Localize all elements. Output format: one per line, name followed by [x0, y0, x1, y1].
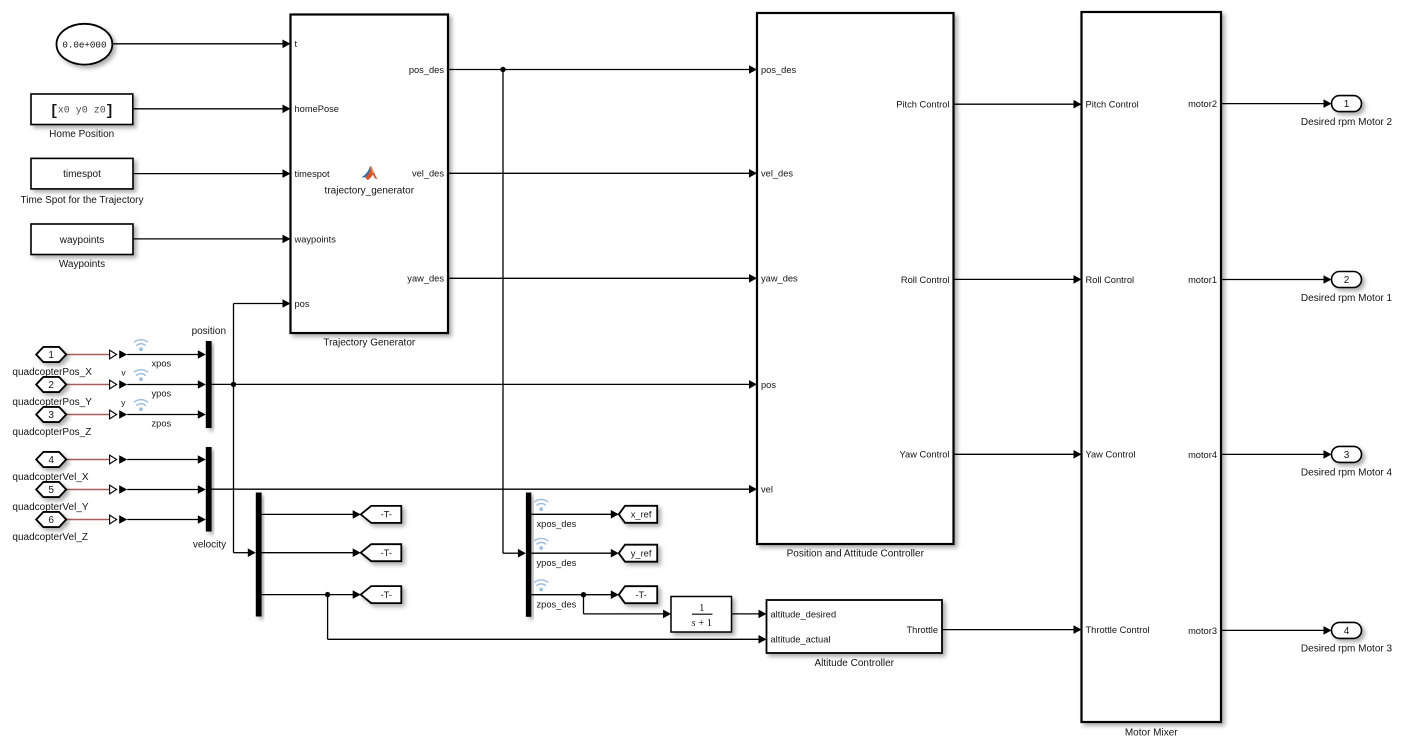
svg-text:1: 1: [1344, 99, 1350, 110]
svg-text:homePose: homePose: [295, 104, 339, 114]
svg-text:vel: vel: [761, 485, 773, 495]
svg-text:yaw_des: yaw_des: [761, 274, 798, 284]
svg-text:waypoints: waypoints: [59, 235, 104, 246]
svg-text:Altitude Controller: Altitude Controller: [815, 658, 895, 669]
svg-text:trajectory_generator: trajectory_generator: [325, 185, 415, 196]
svg-text:ypos: ypos: [152, 389, 172, 399]
svg-text:Desired rpm Motor 4: Desired rpm Motor 4: [1301, 468, 1393, 479]
svg-text:Desired rpm Motor 2: Desired rpm Motor 2: [1301, 117, 1393, 128]
svg-text:5: 5: [48, 485, 54, 496]
svg-text:Time Spot for the Trajectory: Time Spot for the Trajectory: [20, 195, 143, 206]
svg-text:1: 1: [48, 350, 54, 361]
svg-text:Throttle: Throttle: [906, 625, 938, 635]
svg-text:y: y: [121, 397, 126, 407]
svg-text:Pitch Control: Pitch Control: [896, 100, 949, 110]
svg-text:motor3: motor3: [1188, 626, 1217, 636]
svg-text:-T-: -T-: [635, 590, 646, 600]
svg-text:Position and Attitude Controll: Position and Attitude Controller: [787, 548, 925, 559]
svg-text:pos: pos: [295, 299, 310, 309]
svg-text:timespot: timespot: [295, 169, 331, 179]
svg-text:zpos_des: zpos_des: [537, 599, 577, 609]
svg-text:6: 6: [48, 515, 54, 526]
svg-text:timespot: timespot: [63, 169, 101, 180]
svg-text:Yaw Control: Yaw Control: [900, 450, 950, 460]
svg-text:Desired rpm Motor 1: Desired rpm Motor 1: [1301, 293, 1393, 304]
svg-text:x0 y0 z0: x0 y0 z0: [58, 105, 106, 116]
svg-text:-T-: -T-: [381, 510, 392, 520]
svg-text:vel_des: vel_des: [761, 169, 793, 179]
svg-text:Roll Control: Roll Control: [901, 275, 950, 285]
svg-text:0.0e+000: 0.0e+000: [62, 39, 106, 50]
svg-text:velocity: velocity: [193, 540, 226, 551]
svg-text:Trajectory Generator: Trajectory Generator: [323, 338, 416, 349]
svg-text:2: 2: [1344, 275, 1350, 286]
svg-text:Home Position: Home Position: [49, 129, 114, 140]
svg-text:Throttle Control: Throttle Control: [1086, 625, 1150, 635]
svg-text:motor2: motor2: [1188, 99, 1217, 109]
svg-text:xpos: xpos: [152, 359, 172, 369]
svg-text:t: t: [295, 39, 298, 49]
svg-text:-T-: -T-: [381, 590, 392, 600]
svg-text:s + 1: s + 1: [692, 618, 713, 629]
svg-text:waypoints: waypoints: [294, 234, 337, 244]
svg-text:pos_des: pos_des: [761, 65, 797, 75]
svg-text:xpos_des: xpos_des: [537, 519, 577, 529]
svg-text:-T-: -T-: [381, 548, 392, 558]
svg-text:motor4: motor4: [1188, 450, 1217, 460]
svg-text:quadcopterPos_Z: quadcopterPos_Z: [12, 427, 91, 438]
svg-text:altitude_actual: altitude_actual: [771, 635, 831, 645]
svg-text:pos: pos: [761, 380, 776, 390]
svg-text:Yaw Control: Yaw Control: [1086, 450, 1136, 460]
svg-text:4: 4: [1344, 626, 1350, 637]
svg-text:Desired rpm Motor 3: Desired rpm Motor 3: [1301, 644, 1393, 655]
svg-text:vel_des: vel_des: [412, 169, 444, 179]
svg-text:y_ref: y_ref: [631, 549, 652, 559]
svg-text:pos_des: pos_des: [409, 65, 445, 75]
svg-text:x_ref: x_ref: [631, 510, 652, 520]
svg-text:Motor Mixer: Motor Mixer: [1125, 727, 1178, 738]
svg-text:1: 1: [699, 603, 704, 614]
svg-text:Waypoints: Waypoints: [59, 259, 105, 270]
svg-text:Roll Control: Roll Control: [1086, 275, 1135, 285]
svg-text:3: 3: [1344, 450, 1350, 461]
svg-text:altitude_desired: altitude_desired: [771, 609, 837, 619]
svg-text:motor1: motor1: [1188, 275, 1217, 285]
svg-text:zpos: zpos: [152, 419, 172, 429]
svg-text:]: ]: [105, 104, 114, 120]
svg-text:ypos_des: ypos_des: [537, 558, 577, 568]
svg-text:position: position: [192, 326, 226, 337]
svg-text:2: 2: [48, 380, 54, 391]
svg-text:quadcopterVel_Z: quadcopterVel_Z: [12, 532, 88, 543]
svg-text:4: 4: [48, 455, 54, 466]
svg-text:3: 3: [48, 410, 54, 421]
svg-text:Pitch Control: Pitch Control: [1086, 100, 1139, 110]
svg-text:yaw_des: yaw_des: [407, 274, 444, 284]
